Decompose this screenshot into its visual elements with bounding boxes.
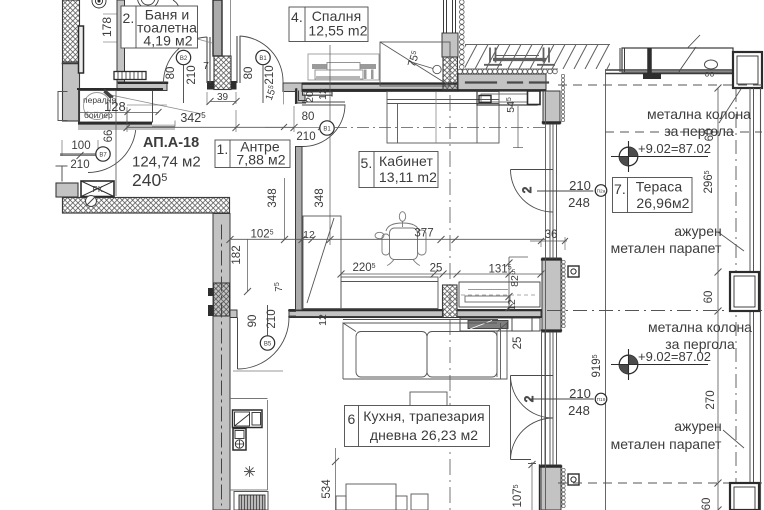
svg-text:АП.А-18: АП.А-18 [143,135,199,151]
dim vertical x509 for 82/12 [506,257,529,311]
leaders to railing [718,232,744,251]
svg-text:210: 210 [569,386,591,401]
dim x531 107.5 [528,461,536,510]
hall low cabinet [341,277,438,309]
svg-text:2.: 2. [123,10,135,26]
wall: east mid pier (between kabinet door and kitchen window) [542,258,565,332]
svg-text:ажурен: ажурен [674,418,721,434]
misc extension ticks [115,90,117,196]
svg-text:12: 12 [303,229,315,241]
pier: hatched in south wall [443,285,458,318]
svg-text:377: 377 [414,228,433,240]
svg-text:7,88 м2: 7,88 м2 [236,152,285,168]
svg-text:12,55 m2: 12,55 m2 [308,23,367,39]
svg-text:В7: В7 [99,152,107,158]
beam support column mid [644,48,661,79]
svg-text:метален парапет: метален парапет [611,436,722,452]
pergola bracket over band [484,48,555,65]
desk chair kabinet [375,212,426,266]
wall: NE corner pier down [543,91,560,124]
label room 5 kabinet [359,152,438,188]
closet washer+boiler [78,90,175,131]
svg-text:182: 182 [231,245,243,264]
svg-text:дневна 26,23 м2: дневна 26,23 м2 [370,427,478,443]
svg-text:за пергола: за пергола [664,123,734,139]
kabinet north sofa unit [387,92,499,144]
wall: hall west dark strip (bath/bedroom divider) [213,0,222,56]
boiler leader diagonal [106,94,202,114]
wall: bedroom south wall [302,83,458,92]
svg-text:178: 178 [100,17,114,37]
svg-text:80: 80 [165,67,177,80]
svg-text:Кабинет: Кабинет [379,153,433,169]
svg-text:Кухня, трапезария: Кухня, трапезария [363,408,484,424]
wall: kabinet west dark strip [296,147,303,311]
svg-text:124,74 м2: 124,74 м2 [132,154,201,171]
kitchen top counter (bookshelf row) [459,282,540,307]
svg-text:В1: В1 [323,126,331,132]
wall: segment right of B1a with niche [283,83,332,104]
svg-text:7: 7 [203,60,209,72]
svg-text:В2: В2 [180,56,188,62]
wall: north wall left of B2 door [78,82,167,91]
neighbour door frame marks left edge [58,92,67,121]
level marker upper [611,141,708,172]
svg-text:ажурен: ажурен [674,223,721,239]
dim 100 entry [60,152,98,159]
leader to column [719,89,741,123]
svg-text:метална колона: метална колона [648,319,752,335]
dim 182 vertical [244,239,251,295]
towel radiator on wall [114,72,146,80]
pier: hatched between B2 and B1 [207,56,237,90]
dim 178 extension [103,14,117,42]
svg-text:25: 25 [512,337,524,350]
dim 36 terrace [530,237,568,250]
svg-text:13,11 m2: 13,11 m2 [379,169,437,185]
svg-text:Тераса: Тераса [636,179,683,195]
door B1a bedroom: leaf + arc [237,36,283,83]
svg-text:210: 210 [186,65,198,84]
dim 39 pier [207,92,240,105]
door B5 frame blocks [230,310,237,318]
svg-text:80: 80 [243,67,255,80]
RK box in band [81,181,114,197]
riser circle symbol on band [86,196,97,207]
svg-text:В5: В5 [264,341,272,347]
svg-text:26,96м2: 26,96м2 [636,195,689,211]
railing post bottom [730,483,759,510]
anchor square symbol mid pier [568,266,579,277]
svg-text:12: 12 [317,314,329,326]
door B1b kabinet: leaf + arc [302,102,345,147]
dining table + chairs [336,484,428,510]
axis vertical center [449,95,451,510]
svg-text:4.: 4. [291,9,303,25]
kitchen sink unit west [233,410,263,428]
svg-text:РК: РК [93,185,103,194]
svg-text:+9.02=87.02: +9.02=87.02 [638,349,711,364]
svg-text:248: 248 [568,195,590,210]
svg-text:39: 39 [217,92,229,103]
svg-text:В1: В1 [259,56,267,62]
svg-text:270: 270 [705,390,717,409]
svg-text:66: 66 [103,130,115,143]
door B5 kitchen: leaf + arc [233,312,296,372]
dim chain y239 [227,236,546,243]
terrace dim ticks x718 [715,85,722,510]
metal column top right [733,52,762,88]
svg-text:1.: 1. [217,141,229,157]
dim 348 hall verticals [281,45,334,245]
svg-text:П2а: П2а [597,189,606,195]
svg-text:348: 348 [314,188,326,207]
coffee table [410,392,447,428]
wall: left gray block lower [56,183,78,197]
svg-text:4,19 м2: 4,19 м2 [143,33,192,49]
bedroom wardrobe with diagonal [380,42,450,86]
wall: south wall under counter (right part) [457,310,541,318]
counter edge line [230,399,268,491]
terrace dashed/axis lines [547,70,762,510]
wall: kitchen west [208,214,230,510]
shaft rect on left wall [79,26,84,73]
svg-text:60: 60 [703,291,715,304]
door B2 bath: leaf + arc [163,37,210,83]
svg-text:60: 60 [701,498,713,510]
ellipse detail on beam [705,60,718,76]
svg-text:82: 82 [509,275,521,287]
svg-text:128: 128 [104,99,126,114]
double terrace door (kitchen): leaves + arcs [511,376,554,460]
bed bedroom [308,54,379,80]
anchor square symbol bottom pier [568,474,579,485]
sofa living [343,320,507,380]
window frame kitchen east [542,332,557,465]
dim x335 kitchen 534 [332,448,339,510]
svg-text:534: 534 [321,479,333,499]
pergola hatch band [453,45,620,70]
svg-text:6: 6 [348,411,356,427]
wall: left exterior gray mid [63,62,80,121]
concentric circles top-left [92,0,106,8]
insulation bubbles: column and row [458,0,558,74]
door B7 entry: leaf + arc [88,122,136,172]
dishwasher [233,429,246,451]
svg-text:5.: 5. [361,155,373,171]
wall: bedroom east window column [442,0,458,90]
dim circle at wardrobe [408,61,441,74]
svg-text:12: 12 [317,88,329,100]
insulation dots NE corner [561,74,564,121]
apartment east edge line [545,91,547,510]
wall: hall south crosshatch band [63,198,230,214]
hall tall wardrobe [303,216,341,309]
svg-text:348: 348 [267,188,279,207]
wall: east bottom pier [540,465,566,510]
stove [234,492,268,510]
svg-text:13155: 13155 [489,264,516,277]
svg-text:36: 36 [545,229,558,241]
svg-text:П19: П19 [597,397,606,403]
svg-text:210: 210 [264,65,276,84]
svg-text:210: 210 [266,309,278,328]
window frame kabinet east [550,124,557,259]
label room 1 hall [215,139,290,168]
level marker lower [611,349,708,380]
wall: south wall of kabinet (left part) [289,310,443,318]
railing post mid [730,272,759,311]
wall: left exterior column hatched top [63,0,80,62]
label room 2 bath [121,6,198,49]
svg-text:210: 210 [296,131,315,143]
svg-text:20: 20 [304,91,316,103]
svg-text:80: 80 [302,111,315,123]
svg-text:100: 100 [71,140,90,152]
dim line y127 right (B1b 80) [265,124,330,130]
dim 342.5 hall [124,106,298,132]
label room 6 kitchen [345,406,490,447]
svg-text:7.: 7. [614,181,626,197]
svg-text:метална колона: метална колона [647,106,751,122]
svg-text:12: 12 [506,299,518,311]
svg-text:+9.02=87.02: +9.02=87.02 [638,141,711,156]
door 2 to terrace (kabinet): leaf + arc [511,170,554,213]
svg-text:метален парапет: метален парапет [611,240,722,256]
dim chain y274 [338,271,545,278]
svg-text:210: 210 [569,178,591,193]
svg-text:210: 210 [70,159,89,171]
svg-text:90: 90 [247,315,259,328]
bath sink circle [138,0,213,43]
fridge snowflake [244,466,255,477]
wall: kabinet north exterior [458,74,548,91]
label room 4 bedroom [289,7,368,42]
kitchen window sill unit [460,318,540,331]
svg-text:2: 2 [522,187,534,193]
shelf unit + dark boxes kabinet [436,91,540,148]
wall: bathroom west strip [117,0,125,83]
pergola beam top right [605,35,733,74]
bedroom west frame line [230,0,232,56]
svg-text:248: 248 [568,403,590,418]
svg-text:25: 25 [430,263,443,275]
label room 7 terrace [613,178,693,213]
